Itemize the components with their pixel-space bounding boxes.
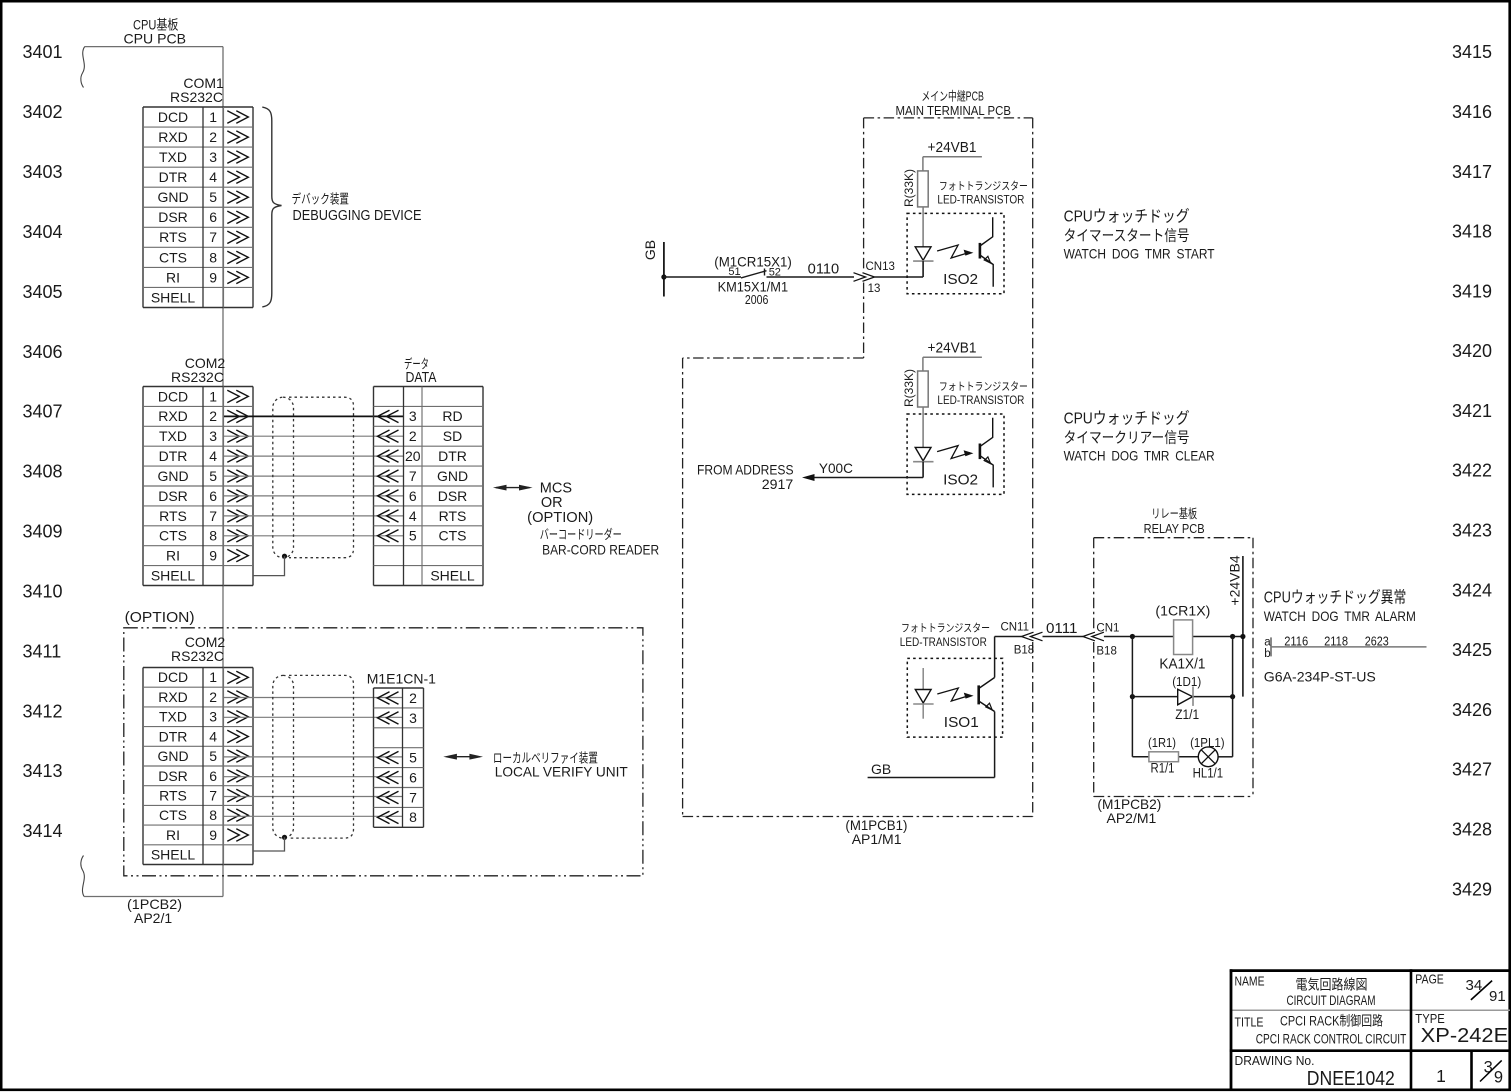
svg-text:3418: 3418 [1452, 222, 1492, 242]
svg-text:MAIN TERMINAL PCB: MAIN TERMINAL PCB [896, 104, 1012, 118]
svg-text:3427: 3427 [1452, 760, 1492, 780]
svg-text:CN1: CN1 [1096, 622, 1119, 634]
svg-text:RXD: RXD [158, 689, 188, 705]
M1E1CN-1 chevron contact pin 6 [387, 771, 399, 783]
wire shield to SHELL (upper) [253, 556, 285, 575]
svg-text:7: 7 [209, 787, 217, 803]
svg-text:R(33K): R(33K) [902, 169, 916, 207]
svg-text:51: 51 [728, 266, 740, 278]
svg-text:KA1X/1: KA1X/1 [1159, 656, 1205, 672]
wire shield to SHELL (option) [253, 837, 285, 851]
svg-text:OR: OR [541, 495, 563, 511]
wire RXD-RD [224, 415, 403, 417]
svg-text:バーコードリーダー: バーコードリーダー [540, 527, 622, 542]
svg-text:G6A-234P-ST-US: G6A-234P-ST-US [1264, 669, 1376, 685]
svg-text:DTR: DTR [159, 728, 188, 744]
COM2b chevron contact row 8 [227, 809, 239, 821]
svg-text:WATCH DOG TMR CLEAR: WATCH DOG TMR CLEAR [1064, 448, 1215, 464]
svg-text:CIRCUIT DIAGRAM: CIRCUIT DIAGRAM [1287, 993, 1376, 1008]
wire CN11 to CN1 [1043, 636, 1083, 638]
wire RXD-2 [224, 697, 403, 699]
svg-text:2: 2 [209, 689, 217, 705]
svg-text:3406: 3406 [23, 342, 63, 362]
wire CTS-8 [224, 815, 403, 817]
svg-text:KM15X1/M1: KM15X1/M1 [718, 279, 789, 295]
svg-text:9: 9 [209, 548, 217, 564]
svg-text:DSR: DSR [158, 209, 188, 225]
opto-isolator ISO2 (upper) [907, 213, 1004, 293]
svg-text:RTS: RTS [159, 229, 187, 245]
svg-text:BAR-CORD READER: BAR-CORD READER [542, 541, 659, 557]
svg-text:CN13: CN13 [866, 261, 895, 273]
svg-text:メイン中継PCB: メイン中継PCB [921, 88, 984, 103]
svg-text:7: 7 [209, 229, 217, 245]
svg-text:(1PL1): (1PL1) [1190, 735, 1225, 750]
DATA chevron contact row 4 [387, 470, 399, 482]
M1E1CN-1 chevron contact pin 5 [387, 751, 399, 763]
opto LED diode [915, 247, 931, 260]
svg-text:DTR: DTR [159, 448, 188, 464]
chevron connector CN13 pin 13 [854, 273, 866, 282]
cable shield (dotted) option [273, 675, 294, 838]
svg-text:CPUウォッチドッグ異常: CPUウォッチドッグ異常 [1264, 589, 1407, 607]
svg-text:3420: 3420 [1452, 341, 1492, 361]
svg-text:91: 91 [1489, 988, 1506, 1005]
COM2b chevron contact row 3 [227, 711, 239, 723]
svg-text:CTS: CTS [159, 249, 187, 265]
svg-text:R1/1: R1/1 [1151, 760, 1175, 776]
DATA chevron contact row 7 [387, 530, 399, 542]
svg-text:2: 2 [409, 428, 417, 444]
svg-text:RTS: RTS [159, 508, 187, 524]
svg-text:7: 7 [409, 789, 417, 805]
svg-text:LED-TRANSISTOR: LED-TRANSISTOR [937, 195, 1024, 207]
svg-text:3414: 3414 [23, 821, 63, 841]
svg-text:デバック装置: デバック装置 [292, 192, 350, 207]
svg-text:2: 2 [209, 408, 217, 424]
svg-text:3410: 3410 [23, 582, 63, 602]
svg-text:RI: RI [166, 827, 180, 843]
COM2b chevron contact row 5 [227, 750, 239, 762]
COM1 chevron contact row 1 [227, 111, 239, 123]
svg-text:3422: 3422 [1452, 461, 1492, 481]
wire ISO1 collector to CN11 [994, 637, 996, 678]
wire GND-GND [224, 475, 403, 477]
svg-text:SHELL: SHELL [151, 289, 196, 305]
DATA chevron contact row 2 [387, 430, 399, 442]
svg-text:LED-TRANSISTOR: LED-TRANSISTOR [900, 637, 987, 649]
svg-text:2: 2 [209, 129, 217, 145]
svg-text:4: 4 [209, 728, 217, 744]
wire CN1 into relay circuit [1104, 636, 1133, 638]
svg-text:3411: 3411 [23, 641, 62, 661]
svg-text:SD: SD [443, 428, 462, 444]
svg-text:DNEE1042: DNEE1042 [1307, 1068, 1395, 1090]
svg-text:GND: GND [157, 189, 188, 205]
M1E1CN-1 chevron contact pin 3 [387, 712, 399, 724]
svg-text:8: 8 [209, 528, 217, 544]
svg-text:CPUウォッチドッグ: CPUウォッチドッグ [1064, 410, 1190, 428]
diode Z1/1 [1178, 689, 1193, 705]
svg-text:3416: 3416 [1452, 102, 1492, 122]
svg-text:フォトトランジスター: フォトトランジスター [939, 180, 1028, 193]
svg-text:RTS: RTS [159, 787, 187, 803]
svg-text:1: 1 [209, 109, 217, 125]
svg-text:R(33K): R(33K) [902, 369, 916, 407]
svg-text:PAGE: PAGE [1415, 972, 1444, 987]
wire lamp row [1132, 756, 1149, 758]
svg-text:SHELL: SHELL [151, 847, 196, 863]
COM2b chevron contact row 6 [227, 770, 239, 782]
opto light arrow [937, 446, 970, 459]
connector M1E1CN-1 table [374, 687, 424, 689]
COM2b table grid [143, 667, 253, 669]
svg-text:SHELL: SHELL [430, 567, 475, 583]
svg-text:RTS: RTS [439, 508, 467, 524]
svg-text:3429: 3429 [1452, 879, 1492, 899]
COM2a chevron contact row 7 [227, 510, 239, 522]
chevron connector CN11 pin B18 [1031, 632, 1043, 641]
wire GB to switch [664, 276, 741, 278]
svg-text:B18: B18 [1096, 646, 1116, 658]
GB rail bottom [868, 777, 995, 779]
resistor R(33K) upper [918, 171, 929, 207]
svg-text:5: 5 [209, 748, 217, 764]
svg-text:7: 7 [409, 468, 417, 484]
COM1 chevron contact row 4 [227, 171, 239, 183]
wire resistor to LED (lower) [922, 407, 924, 447]
COM1 chevron contact row 9 [227, 271, 239, 283]
GB rail vertical [663, 242, 665, 297]
wire DTR-DTR [224, 455, 403, 457]
junction dots diode row [1130, 694, 1135, 699]
svg-text:LED-TRANSISTOR: LED-TRANSISTOR [937, 395, 1024, 407]
wire DSR-6 [224, 776, 403, 778]
junction dot on shield 1 [282, 554, 287, 559]
svg-text:ISO2: ISO2 [943, 472, 978, 489]
svg-text:TXD: TXD [159, 428, 187, 444]
svg-text:RXD: RXD [158, 129, 188, 145]
svg-text:5: 5 [409, 750, 417, 766]
svg-text:3415: 3415 [1452, 42, 1492, 62]
COM2a chevron contact row 1 [227, 390, 239, 402]
wire DSR-DSR [224, 495, 403, 497]
wire resistor to LED (upper) [922, 207, 924, 247]
opto-isolator ISO1 [907, 658, 1002, 737]
svg-text:7: 7 [209, 508, 217, 524]
svg-text:5: 5 [209, 468, 217, 484]
svg-text:DATA: DATA [406, 370, 437, 386]
svg-text:1: 1 [209, 669, 217, 685]
svg-text:2116: 2116 [1284, 634, 1308, 648]
svg-text:CPUウォッチドッグ: CPUウォッチドッグ [1064, 208, 1190, 226]
COM1 chevron contact row 3 [227, 151, 239, 163]
svg-text:3: 3 [209, 428, 217, 444]
RELAY PCB boundary (chain line) [1094, 537, 1253, 539]
svg-text:20: 20 [405, 448, 421, 464]
svg-text:CTS: CTS [159, 528, 187, 544]
svg-text:8: 8 [209, 249, 217, 265]
svg-text:6: 6 [209, 488, 217, 504]
COM1 chevron contact row 8 [227, 251, 239, 263]
svg-text:a: a [1264, 636, 1271, 648]
svg-text:3405: 3405 [23, 282, 63, 302]
break squiggle bottom of CPU PCB left edge [81, 856, 85, 897]
wire RTS-RTS [224, 515, 403, 517]
svg-text:8: 8 [209, 807, 217, 823]
cable shield (dotted) upper [273, 397, 294, 558]
svg-text:(OPTION): (OPTION) [527, 510, 593, 526]
svg-text:TXD: TXD [159, 709, 187, 725]
OPTION boundary box (chain line) [124, 628, 643, 876]
svg-text:9: 9 [1494, 1069, 1503, 1087]
svg-text:DEBUGGING DEVICE: DEBUGGING DEVICE [293, 208, 422, 224]
svg-text:5: 5 [409, 528, 417, 544]
svg-text:リレー基板: リレー基板 [1151, 507, 1197, 521]
opto light arrow [937, 245, 970, 258]
branch verticals relay [1131, 637, 1133, 757]
svg-text:タイマークリアー信号: タイマークリアー信号 [1064, 430, 1190, 447]
svg-text:+24VB1: +24VB1 [928, 341, 977, 357]
svg-text:M1E1CN-1: M1E1CN-1 [367, 670, 436, 686]
COM2b chevron contact row 9 [227, 829, 239, 841]
svg-text:3401: 3401 [23, 42, 63, 62]
svg-text:6: 6 [209, 768, 217, 784]
svg-text:DCD: DCD [158, 388, 188, 404]
COM2a chevron contact row 8 [227, 530, 239, 542]
opto photo transistor [979, 444, 982, 460]
svg-text:(OPTION): (OPTION) [125, 610, 195, 626]
power rail +24VB4 [1242, 556, 1244, 697]
svg-text:9: 9 [209, 269, 217, 285]
svg-text:DTR: DTR [159, 169, 188, 185]
svg-text:AP2/M1: AP2/M1 [1107, 810, 1157, 826]
wire relay coil row [1132, 636, 1173, 638]
COM2a chevron contact row 4 [227, 450, 239, 462]
svg-text:RD: RD [442, 408, 462, 424]
M1E1CN-1 chevron contact pin 8 [387, 811, 399, 823]
svg-text:SHELL: SHELL [151, 567, 196, 583]
svg-text:DSR: DSR [158, 488, 188, 504]
opto LED cathode bar [913, 461, 933, 463]
brace for debugging device [262, 107, 281, 307]
svg-text:RI: RI [166, 548, 180, 564]
wire ISO2 lower LED to Y00C arrow [922, 462, 924, 478]
svg-text:0110: 0110 [808, 261, 840, 277]
svg-text:3425: 3425 [1452, 640, 1492, 660]
svg-text:XP-242E: XP-242E [1421, 1025, 1509, 1047]
svg-text:(1CR1X): (1CR1X) [1155, 602, 1210, 618]
svg-text:3404: 3404 [23, 222, 63, 242]
svg-text:フォトトランジスター: フォトトランジスター [939, 380, 1028, 393]
resistor R(33K) lower [918, 371, 929, 407]
svg-text:3417: 3417 [1452, 162, 1492, 182]
lamp HL1/1 [1198, 747, 1218, 767]
svg-text:AP1/M1: AP1/M1 [852, 831, 902, 847]
svg-text:LOCAL VERIFY UNIT: LOCAL VERIFY UNIT [495, 764, 628, 780]
COM2a chevron contact row 6 [227, 490, 239, 502]
COM2a chevron contact row 2 [227, 410, 239, 422]
wire switch to CN13 [767, 276, 855, 278]
svg-text:3412: 3412 [23, 701, 63, 721]
wire TXD-3 [224, 716, 403, 718]
svg-text:フォトトランジスター: フォトトランジスター [901, 622, 990, 635]
CPU PCB board outline [85, 46, 223, 48]
svg-text:DSR: DSR [438, 488, 468, 504]
svg-text:DCD: DCD [158, 109, 188, 125]
svg-text:6: 6 [409, 769, 417, 785]
connector DATA table [374, 386, 484, 388]
svg-text:CTS: CTS [159, 807, 187, 823]
svg-text:TYPE: TYPE [1415, 1011, 1445, 1026]
svg-text:8: 8 [409, 809, 417, 825]
COM2b chevron contact row 1 [227, 671, 239, 683]
wire RTS-7 [224, 796, 403, 798]
svg-text:NAME: NAME [1235, 974, 1265, 989]
COM2b chevron contact row 7 [227, 789, 239, 801]
svg-text:RS232C: RS232C [171, 369, 224, 385]
svg-text:GND: GND [437, 468, 468, 484]
svg-text:GND: GND [157, 748, 188, 764]
COM2a chevron contact row 5 [227, 470, 239, 482]
COM2a chevron contact row 9 [227, 549, 239, 561]
COM1 chevron contact row 7 [227, 231, 239, 243]
power rail +24VB1 (upper) [923, 156, 982, 158]
COM1 table grid [143, 106, 253, 108]
relay coil KA1X/1 [1174, 620, 1193, 655]
wire GND-5 [224, 756, 403, 758]
svg-text:CPU PCB: CPU PCB [124, 31, 187, 47]
svg-text:13: 13 [868, 283, 881, 295]
junction dot GB [661, 274, 666, 279]
wire CN13 to ISO2 LED [875, 276, 924, 278]
svg-text:2623: 2623 [1365, 634, 1389, 648]
svg-text:4: 4 [209, 448, 217, 464]
M1E1CN-1 chevron contact pin 2 [387, 692, 399, 704]
svg-text:3: 3 [209, 149, 217, 165]
opto-isolator ISO2 (lower) [907, 414, 1004, 494]
COM2b chevron contact row 4 [227, 730, 239, 742]
M1E1CN-1 chevron contact pin 7 [387, 791, 399, 803]
svg-text:2917: 2917 [762, 476, 794, 492]
opto photo transistor [979, 243, 982, 259]
svg-text:3421: 3421 [1452, 401, 1492, 421]
svg-text:HL1/1: HL1/1 [1193, 764, 1224, 780]
resistor R1/1 [1149, 752, 1179, 762]
svg-text:3423: 3423 [1452, 521, 1492, 541]
switch contact KM15X1/M1 (M1CR15X1) pins 51-52 [741, 271, 767, 278]
svg-text:RS232C: RS232C [170, 89, 223, 105]
svg-text:(1R1): (1R1) [1148, 735, 1176, 750]
svg-text:3413: 3413 [23, 761, 63, 781]
svg-text:4: 4 [409, 508, 417, 524]
svg-text:RXD: RXD [158, 408, 188, 424]
wire TXD-SD [224, 435, 403, 437]
svg-text:B18: B18 [1014, 645, 1034, 657]
title block frame [1230, 969, 1510, 972]
svg-text:DRAWING No.: DRAWING No. [1235, 1053, 1315, 1068]
svg-text:3419: 3419 [1452, 281, 1492, 301]
svg-text:3: 3 [409, 408, 417, 424]
COM2a table grid [143, 386, 253, 388]
svg-text:DSR: DSR [158, 768, 188, 784]
COM2a chevron contact row 3 [227, 430, 239, 442]
svg-text:6: 6 [409, 488, 417, 504]
power rail +24VB1 (lower) [923, 356, 982, 358]
bidirectional arrow to MCS [496, 487, 530, 489]
wire ISO2 LED cathode down to CN13 wire [922, 261, 924, 277]
svg-text:RS232C: RS232C [171, 648, 224, 664]
svg-text:ISO1: ISO1 [944, 714, 979, 731]
DATA chevron contact row 3 [387, 450, 399, 462]
break squiggle top of CPU PCB left edge [81, 47, 85, 88]
svg-text:4: 4 [209, 169, 217, 185]
svg-text:3407: 3407 [23, 402, 63, 422]
svg-text:CTS: CTS [439, 528, 467, 544]
wire CTS-CTS [224, 535, 403, 537]
svg-text:3: 3 [209, 709, 217, 725]
svg-text:3409: 3409 [23, 522, 63, 542]
svg-text:AP2/1: AP2/1 [134, 910, 172, 926]
svg-text:DTR: DTR [438, 448, 467, 464]
svg-text:3426: 3426 [1452, 700, 1492, 720]
svg-text:GB: GB [642, 240, 658, 260]
bidirectional arrow to local verify unit [447, 756, 481, 758]
DATA chevron contact row 6 [387, 510, 399, 522]
svg-text:GB: GB [871, 761, 891, 777]
svg-text:DCD: DCD [158, 669, 188, 685]
svg-text:Z1/1: Z1/1 [1175, 706, 1199, 722]
svg-text:3424: 3424 [1452, 580, 1492, 600]
svg-text:FROM ADDRESS: FROM ADDRESS [697, 461, 794, 477]
svg-text:3: 3 [409, 710, 417, 726]
chevron connector CN1 pin B18 [1092, 632, 1104, 641]
svg-text:GND: GND [157, 468, 188, 484]
svg-text:Y00C: Y00C [819, 460, 853, 476]
svg-text:RI: RI [166, 269, 180, 285]
svg-text:5: 5 [209, 189, 217, 205]
svg-text:TITLE: TITLE [1235, 1014, 1264, 1029]
svg-text:+24VB4: +24VB4 [1227, 555, 1243, 605]
svg-text:CN11: CN11 [1000, 621, 1029, 633]
svg-text:0111: 0111 [1046, 621, 1078, 637]
svg-text:b: b [1264, 648, 1270, 660]
svg-text:電気回路線図: 電気回路線図 [1296, 977, 1368, 993]
svg-text:タイマースタート信号: タイマースタート信号 [1064, 228, 1190, 245]
svg-text:RELAY PCB: RELAY PCB [1144, 522, 1205, 536]
svg-text:3428: 3428 [1452, 820, 1492, 840]
svg-text:2006: 2006 [745, 293, 769, 307]
svg-text:3408: 3408 [23, 462, 63, 482]
wire ISO1 emitter to GB rail [994, 712, 996, 778]
junction dots coil row [1130, 634, 1135, 639]
svg-text:CPCI RACK制御回路: CPCI RACK制御回路 [1280, 1013, 1383, 1028]
COM1 chevron contact row 2 [227, 131, 239, 143]
svg-text:ISO2: ISO2 [943, 271, 978, 288]
COM1 chevron contact row 5 [227, 191, 239, 203]
opto LED cathode bar [913, 260, 933, 262]
COM1 chevron contact row 6 [227, 211, 239, 223]
wire diode row [1132, 696, 1232, 698]
svg-text:3402: 3402 [23, 102, 63, 122]
svg-text:WATCH DOG TMR ALARM: WATCH DOG TMR ALARM [1264, 608, 1416, 624]
svg-text:TXD: TXD [159, 149, 187, 165]
svg-text:(1D1): (1D1) [1172, 674, 1201, 689]
svg-text:+24VB1: +24VB1 [928, 140, 977, 156]
MAIN TERMINAL PCB boundary (chain line) [864, 117, 1033, 119]
svg-text:2: 2 [409, 690, 417, 706]
svg-text:1: 1 [209, 388, 217, 404]
